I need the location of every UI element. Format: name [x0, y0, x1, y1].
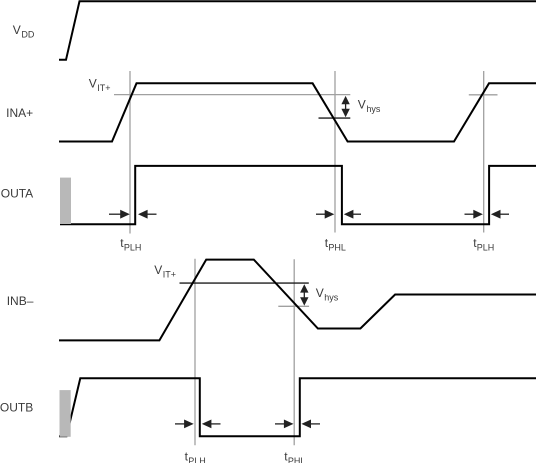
svg-text:OUTA: OUTA [1, 187, 33, 201]
svg-text:V: V [358, 97, 366, 111]
svg-text:PLH: PLH [477, 243, 495, 253]
svg-text:PHL: PHL [328, 243, 346, 253]
svg-text:IT+: IT+ [163, 269, 176, 279]
svg-text:DD: DD [21, 30, 34, 40]
svg-text:V: V [13, 23, 21, 37]
svg-text:OUTB: OUTB [0, 400, 33, 414]
svg-text:V: V [154, 263, 162, 277]
svg-text:PHL: PHL [288, 456, 306, 463]
svg-text:hys: hys [324, 293, 339, 303]
svg-text:PLH: PLH [124, 243, 142, 253]
svg-text:PLH: PLH [188, 456, 206, 463]
svg-text:INA+: INA+ [6, 106, 33, 120]
svg-text:hys: hys [366, 104, 381, 114]
svg-text:V: V [89, 77, 97, 91]
svg-text:IT+: IT+ [97, 83, 110, 93]
svg-text:INB–: INB– [7, 294, 34, 308]
svg-text:V: V [316, 286, 324, 300]
